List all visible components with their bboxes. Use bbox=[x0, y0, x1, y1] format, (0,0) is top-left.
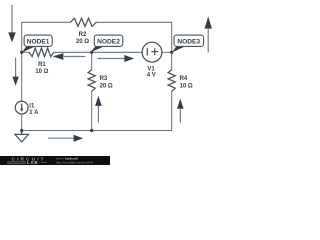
voltage source V1 bbox=[142, 42, 162, 62]
ground bbox=[21, 131, 23, 135]
current arrow down (I1 branch) bbox=[15, 58, 17, 78]
watermark bar bbox=[0, 156, 110, 165]
current source I1 bbox=[15, 101, 28, 114]
junction: rail at I1 bbox=[20, 129, 23, 132]
node label NODE1 bbox=[22, 46, 36, 52]
junction node C (NODE3) bbox=[170, 51, 173, 54]
current arrow right (NODE2 to V1) bbox=[98, 58, 126, 60]
svg-text:NODE1: NODE1 bbox=[27, 39, 50, 46]
svg-text:R3: R3 bbox=[100, 76, 108, 82]
svg-text:20 Ω: 20 Ω bbox=[100, 83, 113, 89]
junction node B (NODE2) bbox=[90, 51, 93, 54]
current arrow up (R3 branch) bbox=[97, 106, 99, 123]
wire: R3 branch upper lead bbox=[91, 52, 93, 69]
svg-text:http://circuitlab.com/c/nxb7e: http://circuitlab.com/c/nxb7e bbox=[56, 161, 94, 165]
current arrow down (top left) bbox=[11, 5, 13, 33]
node label NODE3 bbox=[172, 46, 186, 52]
wire: R3 branch lower lead bbox=[91, 91, 93, 130]
svg-text:R4: R4 bbox=[180, 76, 188, 82]
junction: rail at R3 bbox=[90, 129, 93, 132]
wire: top loop NODE1 up and across to NODE3 bbox=[22, 22, 71, 52]
wire: middle wire NODE1 to R1 bbox=[22, 51, 29, 53]
svg-text:V1: V1 bbox=[147, 66, 155, 72]
svg-text:10 Ω: 10 Ω bbox=[35, 69, 48, 75]
wire: R1 to V1 through NODE2 bbox=[54, 51, 142, 53]
resistor R2 bbox=[70, 18, 96, 26]
current arrow up (R4 branch) bbox=[179, 109, 181, 123]
svg-text:R1: R1 bbox=[38, 62, 46, 68]
wire: V1 right to NODE3 bbox=[162, 51, 172, 53]
wire: R4 branch lower lead to bottom rail corner bbox=[22, 91, 172, 130]
wire: I1 branch lower lead bbox=[21, 114, 23, 131]
svg-text:10 Ω: 10 Ω bbox=[180, 83, 193, 89]
svg-text:I1: I1 bbox=[29, 103, 35, 109]
current arrow right (bottom rail) bbox=[48, 137, 75, 139]
resistor R4 bbox=[168, 70, 175, 92]
resistor R3 bbox=[88, 70, 95, 92]
svg-text:R2: R2 bbox=[79, 32, 87, 38]
wire: top right segment to NODE3 corner bbox=[96, 22, 172, 52]
wire: R4 branch upper lead bbox=[171, 52, 173, 69]
wire: I1 branch upper lead bbox=[21, 52, 23, 101]
junction node A (NODE1) bbox=[20, 51, 23, 54]
current arrow up (right of NODE3) bbox=[207, 29, 209, 53]
svg-text:20 Ω: 20 Ω bbox=[76, 39, 89, 45]
svg-text:4 V: 4 V bbox=[147, 73, 156, 79]
svg-text:1 A: 1 A bbox=[29, 110, 39, 116]
current arrow left (R1 to NODE2) bbox=[64, 56, 86, 58]
svg-text:NODE2: NODE2 bbox=[97, 39, 120, 46]
node label NODE2 bbox=[90, 46, 104, 52]
resistor R1 bbox=[29, 48, 54, 57]
svg-text:LAB: LAB bbox=[27, 160, 38, 165]
svg-text:NODE3: NODE3 bbox=[177, 39, 200, 46]
